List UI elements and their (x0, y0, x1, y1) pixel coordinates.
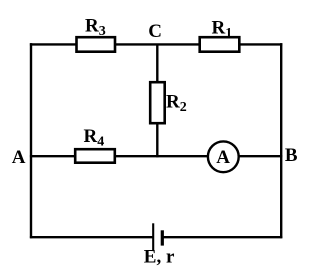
battery E short thick plate (negative) (161, 230, 164, 245)
ammeter U1 circle (208, 141, 239, 172)
wire middle-right segment (ammeter to B) (239, 155, 283, 157)
wire bottom-left segment (30, 236, 153, 238)
wire bottom-right segment (162, 236, 282, 238)
wire top-middle segment (115, 43, 200, 45)
wire top-right segment (240, 43, 283, 45)
svg-text:C: C (148, 21, 162, 42)
wire middle-left segment (A to R4) (30, 155, 75, 157)
resistor R3 (77, 37, 116, 52)
wire R2 upper stem from node C (156, 44, 158, 82)
wire right vertical (280, 43, 282, 238)
resistor R4 (75, 149, 115, 163)
resistor R2 (150, 82, 165, 123)
svg-text:B: B (285, 145, 298, 166)
svg-text:A: A (216, 147, 230, 168)
svg-text:E, r: E, r (144, 247, 175, 268)
resistor R1 (200, 37, 240, 52)
wire middle segment (R4 to ammeter) (115, 155, 209, 157)
wire R2 lower stem to middle wire (156, 123, 158, 158)
wire left vertical (30, 43, 32, 238)
svg-text:A: A (12, 147, 26, 168)
battery E long plate (positive) (152, 223, 154, 250)
wire top-left segment (30, 43, 76, 45)
